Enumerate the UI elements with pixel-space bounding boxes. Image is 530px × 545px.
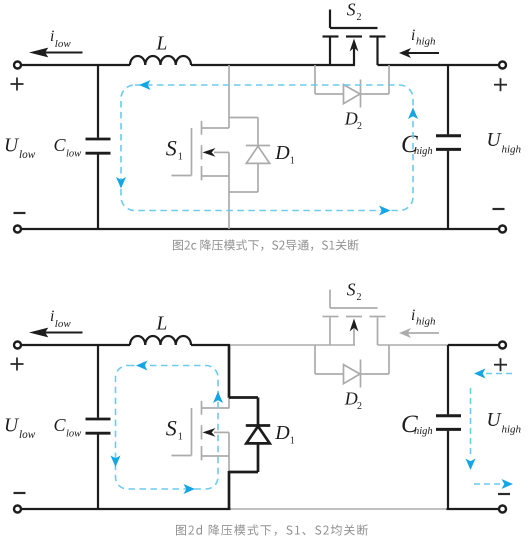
- wire C_high branch upper: [447, 65, 449, 134]
- current loop (buck, S2 on) dashed path: [121, 85, 413, 211]
- wire top-right (C_high node to terminal): [448, 64, 499, 66]
- wire C_low branch lower: [97, 434, 99, 509]
- S2 drain lead: [376, 38, 378, 66]
- S2 gate lead: [329, 10, 331, 29]
- wire S1 branch lower gray: [228, 432, 230, 471]
- S1 drain contact: [201, 401, 203, 415]
- current arrow i_high: [399, 48, 439, 58]
- svg-text:1: 1: [178, 151, 183, 162]
- S1 body arrow: [203, 428, 230, 437]
- minus sign low side: [14, 492, 26, 494]
- svg-text:low: low: [66, 428, 81, 439]
- terminal (high side +): [499, 342, 506, 349]
- svg-text:low: low: [55, 318, 72, 330]
- diode D1: [246, 146, 270, 164]
- S1 body contact: [201, 145, 203, 159]
- current arrow i_low: [29, 328, 83, 338]
- plus sign low side: [11, 78, 24, 91]
- C_high discharge dashed segment bottom: [474, 483, 500, 485]
- S1 body contact: [201, 425, 203, 439]
- label U_low: [4, 416, 36, 442]
- svg-text:L: L: [156, 314, 168, 335]
- terminal (low side -): [14, 226, 21, 233]
- wire D1 branch: [257, 398, 260, 473]
- wire top-right (S2 drain to C_high node): [378, 64, 449, 66]
- svg-text:high: high: [502, 144, 522, 156]
- wire C_low branch lower: [97, 154, 99, 229]
- S2 gate bar: [330, 27, 378, 29]
- plus sign low side: [11, 358, 24, 371]
- label C_high: [401, 411, 433, 438]
- svg-text:D: D: [344, 108, 358, 128]
- capacitor C_high: [436, 136, 461, 150]
- S2 source contact: [370, 35, 386, 37]
- svg-text:U: U: [487, 410, 503, 431]
- terminal (low side +): [14, 342, 21, 349]
- minus sign low side: [14, 212, 26, 214]
- svg-text:high: high: [414, 146, 433, 157]
- wire S1 to D1 top link: [229, 117, 258, 119]
- svg-text:1: 1: [290, 156, 295, 167]
- current loop (freewheel via D1) dashed path: [116, 365, 219, 489]
- svg-text:1: 1: [178, 431, 183, 442]
- svg-text:U: U: [4, 416, 20, 437]
- diode D2: [344, 80, 361, 108]
- svg-text:high: high: [414, 426, 433, 437]
- wire D2 branch left: [314, 65, 316, 94]
- diode D1: [246, 426, 270, 444]
- plus sign high side: [494, 78, 507, 91]
- svg-text:L: L: [156, 34, 168, 55]
- label U_high: [487, 410, 522, 436]
- svg-text:low: low: [66, 148, 81, 159]
- label i_high: [411, 307, 436, 328]
- label L: [156, 314, 168, 335]
- svg-text:2: 2: [357, 12, 362, 23]
- S2 source lead: [329, 318, 331, 346]
- svg-text:low: low: [19, 149, 36, 161]
- terminal (low side +): [14, 62, 21, 69]
- svg-text:2: 2: [357, 121, 362, 132]
- freewheel loop arrow right (up): [213, 392, 223, 404]
- label S1: [166, 416, 183, 443]
- label S2: [347, 0, 362, 23]
- terminal (high side -): [499, 506, 506, 513]
- wire D2 branch right: [388, 65, 390, 94]
- label D1: [274, 422, 295, 447]
- S2 body contact: [346, 316, 362, 318]
- S2 body contact: [346, 35, 362, 37]
- svg-text:high: high: [416, 316, 436, 328]
- wire S1 branch upper: [228, 65, 230, 128]
- terminal (high side +): [499, 62, 506, 69]
- wire bottom-left: [22, 508, 231, 510]
- label C_low: [54, 415, 82, 440]
- S1 drain lead: [202, 127, 230, 129]
- svg-text:low: low: [19, 429, 36, 441]
- capacitor C_low: [86, 419, 111, 433]
- S1 drain lead: [202, 407, 230, 409]
- label D1: [274, 142, 295, 167]
- S1 drain contact: [201, 121, 203, 135]
- svg-text:U: U: [487, 130, 503, 151]
- S1 source lead: [202, 455, 230, 457]
- inductor L: [130, 336, 191, 345]
- current arrow i_high: [399, 328, 439, 338]
- S1 gate bar: [191, 128, 193, 176]
- svg-text:high: high: [502, 424, 522, 436]
- caption figure 2c: [173, 239, 359, 250]
- S1 gate lead: [172, 455, 192, 457]
- svg-text:S: S: [166, 136, 177, 161]
- current arrow i_low: [29, 48, 83, 58]
- S2 drain lead: [377, 318, 379, 346]
- current loop arrow right (up): [408, 108, 418, 120]
- wire S1 branch upper: [228, 345, 231, 398]
- current loop arrow bottom (right): [379, 206, 391, 216]
- C_high discharge dashed segment vertical: [470, 388, 472, 457]
- wire D2 branch right: [388, 345, 390, 374]
- wire D1 branch: [257, 118, 259, 193]
- svg-text:C: C: [54, 415, 67, 435]
- wire S1 to D1 bottom link: [229, 191, 258, 193]
- wire S1 to D1 top link: [229, 396, 258, 399]
- svg-text:S: S: [166, 416, 177, 441]
- capacitor C_high: [436, 416, 461, 430]
- wire top-left (terminal to inductor): [22, 344, 131, 346]
- wire C_low branch upper: [97, 65, 99, 138]
- minus sign high side: [493, 208, 505, 210]
- label C_high: [401, 131, 433, 158]
- S1 gate lead: [172, 175, 192, 177]
- caption figure 2d: [176, 524, 368, 535]
- S2 body arrow: [350, 39, 359, 66]
- wire D2 branch left: [314, 345, 316, 374]
- svg-text:2: 2: [357, 401, 362, 412]
- S1 source lead: [202, 175, 230, 177]
- label S1: [166, 136, 183, 163]
- svg-text:S: S: [347, 0, 356, 19]
- wire C_high branch lower: [447, 151, 449, 229]
- svg-text:U: U: [4, 136, 20, 157]
- S2 drain contact: [323, 316, 339, 318]
- C_high discharge dashed segment top: [486, 373, 513, 375]
- wire D2 anode link: [315, 93, 344, 95]
- current loop arrow top (left): [139, 80, 151, 90]
- plus sign high side: [494, 358, 507, 371]
- svg-text:S: S: [347, 279, 356, 299]
- svg-text:i: i: [411, 307, 415, 324]
- wire D2 anode link: [315, 373, 344, 375]
- svg-text:high: high: [416, 36, 436, 48]
- S2 source lead: [329, 38, 331, 66]
- S2 source contact: [370, 316, 386, 318]
- S1 body arrow: [203, 148, 230, 157]
- freewheel loop arrow left (down): [111, 456, 121, 468]
- label C_low: [54, 135, 82, 160]
- wire D2 cathode link: [361, 373, 390, 375]
- freewheel loop arrow top (left): [136, 361, 148, 371]
- S1 source contact: [201, 166, 203, 180]
- wire S1 to D1 bottom link: [229, 471, 258, 474]
- S1 gate bar: [191, 408, 193, 456]
- svg-text:2: 2: [357, 292, 362, 303]
- wire top-left (terminal to inductor): [22, 64, 131, 66]
- current loop arrow left (down): [116, 177, 126, 189]
- terminal (high side -): [499, 226, 506, 233]
- label U_high: [487, 130, 522, 156]
- svg-text:D: D: [274, 422, 290, 444]
- label D2: [344, 108, 362, 132]
- wire top-mid (inductor to S2 source): [191, 344, 355, 346]
- wire bottom: [22, 228, 499, 230]
- wire C_high branch upper: [447, 345, 449, 414]
- wire top-mid (inductor to S2 source): [191, 64, 355, 66]
- label i_high: [411, 27, 436, 48]
- wire bottom-right: [447, 508, 499, 510]
- S2 drain contact: [323, 35, 339, 37]
- svg-text:C: C: [54, 135, 67, 155]
- wire S1 branch lower black: [228, 471, 231, 509]
- wire C_high branch lower: [447, 431, 449, 509]
- capacitor C_low: [86, 139, 111, 153]
- svg-text:D: D: [274, 142, 290, 164]
- svg-text:low: low: [55, 38, 72, 50]
- freewheel loop arrow bottom (right): [184, 484, 196, 494]
- svg-text:D: D: [344, 388, 358, 408]
- label D2: [344, 388, 362, 412]
- S2 gate lead: [329, 290, 331, 309]
- label i_low: [50, 28, 71, 50]
- S2 body arrow: [350, 319, 359, 346]
- diode D2: [344, 360, 361, 388]
- terminal (low side -): [14, 506, 21, 513]
- label U_low: [4, 136, 36, 162]
- wire top-right (S2 drain to C_high node): [378, 344, 449, 346]
- wire top-mid black (inductor to S1 node): [191, 344, 230, 346]
- svg-text:i: i: [411, 27, 415, 44]
- label S2: [347, 279, 362, 303]
- C_high discharge arrow (right): [502, 479, 514, 489]
- svg-text:i: i: [50, 28, 54, 45]
- C_high discharge arrow (left): [474, 369, 486, 379]
- wire S1 branch lower: [228, 152, 230, 229]
- label i_low: [50, 308, 71, 330]
- wire C_low branch upper: [97, 345, 99, 418]
- minus sign high side: [498, 493, 510, 495]
- wire bottom-mid: [231, 508, 447, 510]
- inductor L: [130, 56, 191, 65]
- C_high discharge arrow (down): [466, 459, 476, 471]
- svg-text:1: 1: [290, 436, 295, 447]
- wire top-right (C_high node to terminal): [448, 344, 499, 346]
- S1 source contact: [201, 446, 203, 460]
- S2 gate bar: [330, 307, 378, 309]
- wire D2 cathode link: [361, 93, 390, 95]
- svg-text:i: i: [50, 308, 54, 325]
- wire S1 drain stub gray: [228, 398, 230, 409]
- label L: [156, 34, 168, 55]
